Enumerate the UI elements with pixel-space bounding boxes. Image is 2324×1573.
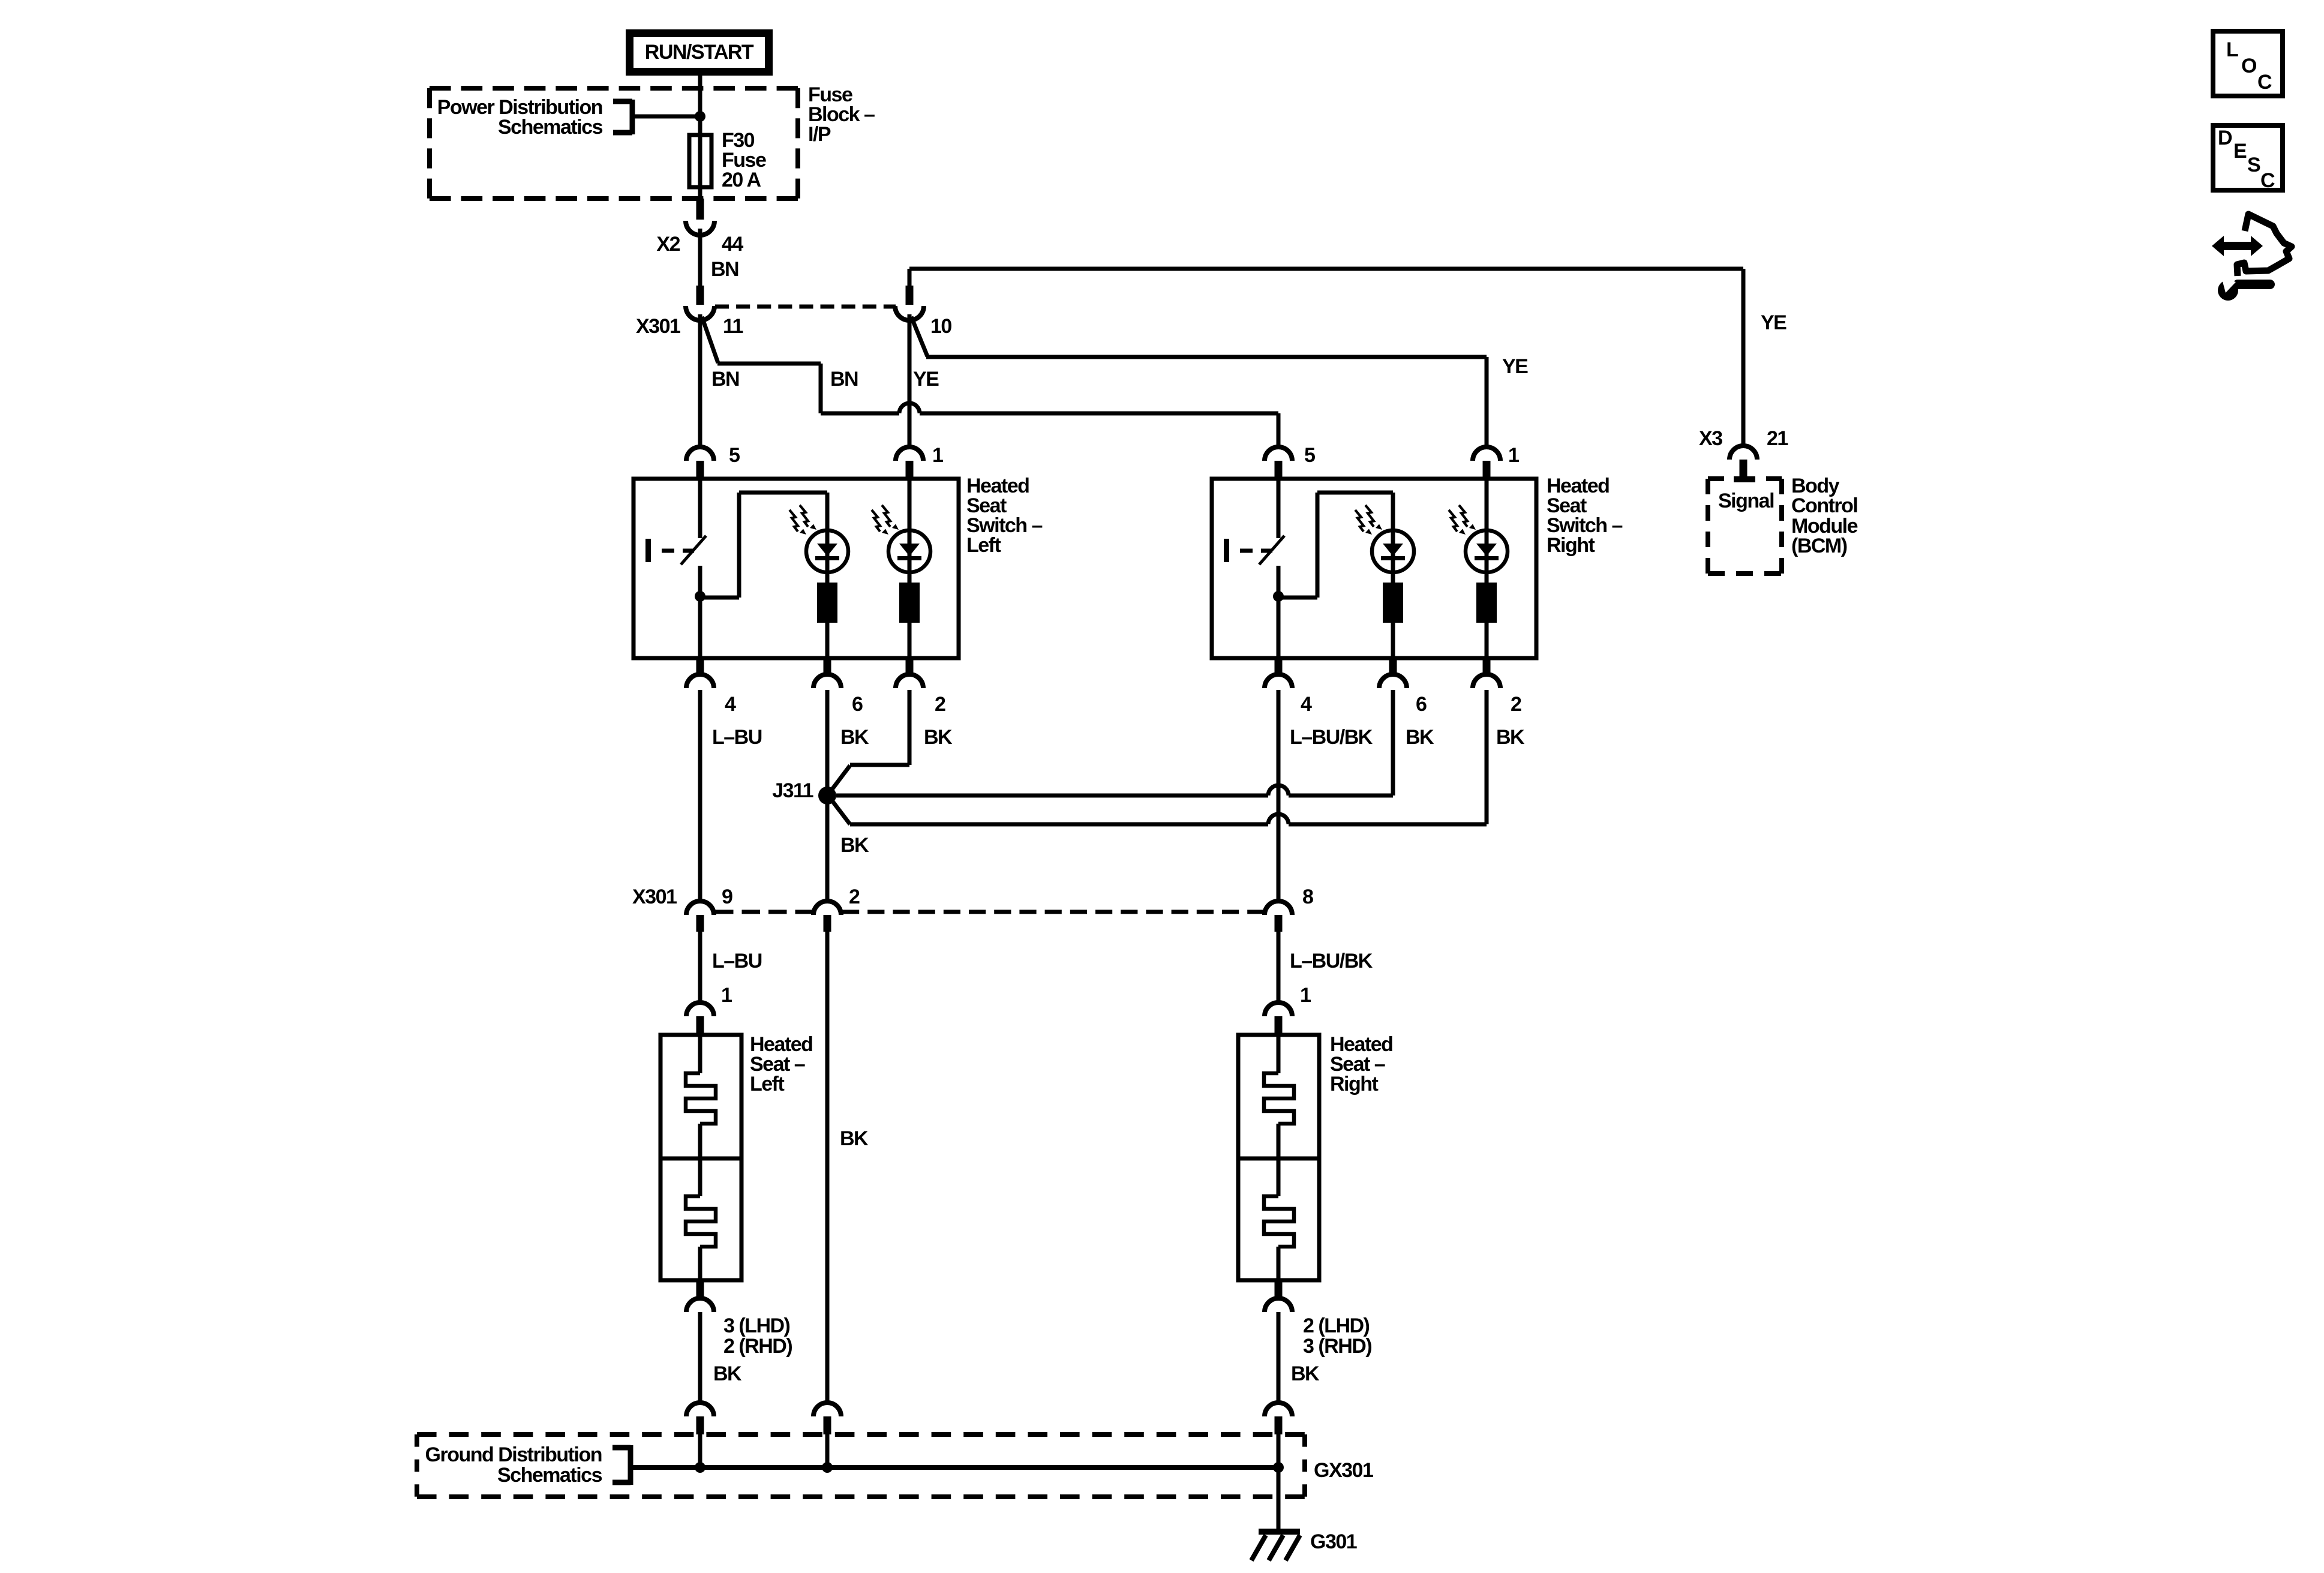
- connector right heated seat ground pin: [1265, 1280, 1292, 1312]
- label BN mid: [830, 368, 858, 391]
- svg-text:2: 2: [935, 693, 945, 716]
- svg-text:BK: BK: [840, 726, 869, 749]
- svg-text:X301: X301: [636, 315, 680, 338]
- label 9: [722, 885, 732, 908]
- svg-text:D: D: [2218, 127, 2232, 149]
- ignition voltage box RUN/START: [630, 34, 769, 72]
- svg-text:Signal: Signal: [1718, 490, 1774, 512]
- connector X301 pin 2: [813, 901, 841, 932]
- svg-text:BK: BK: [924, 726, 953, 749]
- wire color labels under right switch: [1290, 726, 1525, 749]
- dashed connector line X301 row2 right: [842, 910, 1265, 914]
- wire BK J311 to right pin6: [836, 690, 1393, 795]
- svg-text:X3: X3: [1699, 427, 1722, 450]
- connector left switch pin 2: [896, 658, 923, 688]
- svg-text:BK: BK: [840, 834, 869, 857]
- connector right switch pin 6: [1379, 658, 1407, 688]
- svg-text:L–BU/BK: L–BU/BK: [1290, 950, 1373, 972]
- svg-text:1: 1: [1300, 984, 1311, 1007]
- svg-text:I/P: I/P: [808, 123, 831, 146]
- wire into ground bus right: [1277, 1434, 1281, 1467]
- wire hop at right pin4 upper: [1268, 785, 1289, 795]
- svg-text:C: C: [2260, 169, 2275, 192]
- label J311: [772, 779, 813, 802]
- dashed connector line X301 row1: [715, 305, 896, 309]
- wire BK J311 to right pin2: [831, 690, 1487, 824]
- svg-text:BK: BK: [1291, 1362, 1320, 1385]
- ground symbol G301: [1251, 1529, 1300, 1560]
- connector left switch pin 4: [686, 658, 714, 688]
- connector left switch pin 6: [813, 658, 841, 688]
- svg-text:3 (LHD): 3 (LHD): [723, 1314, 790, 1337]
- svg-text:X301: X301: [632, 885, 677, 908]
- label Signal: [1718, 490, 1774, 512]
- label YE at BCM wire: [1761, 311, 1786, 334]
- label Heated Seat Switch - Right: [1547, 475, 1623, 557]
- heated seat switch left box with switch S1 LEDs and resistors: [633, 479, 959, 658]
- connector X301 pin 11: [686, 286, 714, 320]
- wire YE from X301-10 down to left switch pin 1: [908, 314, 912, 449]
- label BN: [711, 258, 738, 281]
- connector left heated seat ground pin: [686, 1280, 714, 1312]
- svg-text:(BCM): (BCM): [1791, 535, 1847, 557]
- svg-text:S: S: [2247, 154, 2260, 176]
- svg-text:Left: Left: [966, 534, 1001, 557]
- wire BK left pin6 to J311: [825, 690, 830, 795]
- svg-text:RUN/START: RUN/START: [645, 41, 754, 64]
- connector X301 pin 9: [686, 901, 714, 932]
- wire hop where BN crosses YE: [899, 403, 920, 413]
- svg-text:L–BU/BK: L–BU/BK: [1290, 726, 1373, 749]
- connector X301 pin 8: [1265, 901, 1292, 932]
- label 1 left heater: [721, 984, 732, 1007]
- label 2 row2: [849, 885, 860, 908]
- svg-text:Ground Distribution: Ground Distribution: [425, 1443, 602, 1466]
- svg-text:44: 44: [722, 233, 743, 256]
- svg-text:YE: YE: [913, 368, 939, 391]
- label YE mid: [1502, 355, 1528, 378]
- svg-text:BK: BK: [713, 1362, 742, 1385]
- label 21: [1767, 427, 1788, 450]
- wire from RUN/START to fuse block junction: [698, 76, 702, 135]
- left heated seat element box: [660, 1035, 741, 1282]
- wire into ground bus left: [698, 1434, 702, 1467]
- wire GX301 to G301: [1277, 1467, 1281, 1530]
- svg-text:Left: Left: [750, 1073, 785, 1095]
- svg-text:Right: Right: [1330, 1073, 1379, 1095]
- label GX301: [1314, 1459, 1373, 1482]
- wire BK left pin2 to J311: [830, 690, 909, 792]
- wire L-BU to left heated seat: [698, 932, 702, 1004]
- connector left heated seat pin 1: [686, 1002, 714, 1035]
- connector right switch pin 1: [1473, 447, 1500, 479]
- svg-text:21: 21: [1767, 427, 1788, 450]
- svg-text:2: 2: [849, 885, 860, 908]
- heated seat switch right box with switch S2 LEDs and resistors: [1212, 479, 1536, 658]
- wire YE from X301-10 up and right to BCM: [909, 269, 1743, 447]
- wire L-BU/BK right pin4 to X301-8: [1277, 690, 1281, 902]
- label X301 row2: [632, 885, 677, 908]
- svg-text:11: 11: [723, 315, 743, 338]
- fuse block I/P dashed box: [430, 88, 798, 199]
- label YE on left pin1 wire: [913, 368, 939, 391]
- label X2: [656, 233, 680, 256]
- svg-text:3 (RHD): 3 (RHD): [1303, 1335, 1371, 1358]
- wire BK left heater to ground connector: [698, 1312, 702, 1404]
- connector right heated seat pin 1: [1265, 1002, 1292, 1035]
- connector right switch pin 4: [1265, 658, 1292, 688]
- svg-text:BK: BK: [840, 1127, 869, 1150]
- svg-text:YE: YE: [1502, 355, 1528, 378]
- wire into ground bus mid: [825, 1434, 830, 1467]
- dashed connector line X301 row2 left: [715, 910, 813, 914]
- svg-text:BK: BK: [1496, 726, 1525, 749]
- connector mid ground lead: [813, 1403, 841, 1434]
- wire BK J311 down to X301-2: [825, 795, 830, 902]
- icon double arrow: [2212, 236, 2263, 256]
- right heated seat element box: [1238, 1035, 1319, 1282]
- label BK right ground wire: [1291, 1362, 1320, 1385]
- svg-text:1: 1: [1508, 444, 1519, 467]
- pin labels under left switch: [725, 693, 945, 716]
- label Ground Distribution Schematics: [425, 1443, 602, 1487]
- svg-text:GX301: GX301: [1314, 1459, 1373, 1482]
- junction dot ground left: [695, 1462, 705, 1473]
- ground bus wire GX301: [630, 1465, 1278, 1470]
- label Heated Seat - Right: [1330, 1033, 1392, 1095]
- label Fuse Block - I/P: [808, 83, 875, 146]
- svg-text:2 (LHD): 2 (LHD): [1303, 1314, 1370, 1337]
- wire from Power Distribution bracket to node: [632, 115, 700, 119]
- svg-text:10: 10: [930, 315, 951, 338]
- label 2 LHD 3 RHD: [1303, 1314, 1371, 1358]
- label BN left: [711, 368, 739, 391]
- label 11: [723, 315, 743, 338]
- svg-text:1: 1: [932, 444, 943, 467]
- label L-BU/BK: [1290, 950, 1373, 972]
- connector right switch pin 2: [1473, 658, 1500, 688]
- svg-text:2 (RHD): 2 (RHD): [723, 1335, 792, 1358]
- label 44: [722, 233, 743, 256]
- svg-text:BN: BN: [711, 368, 739, 391]
- junction node at fuse top: [695, 111, 705, 122]
- svg-text:O: O: [2241, 55, 2257, 77]
- label G301: [1310, 1530, 1357, 1553]
- wire BN branch from X301-11 to right switch pin 5: [702, 317, 1278, 449]
- icon arrow outline: [2237, 214, 2292, 276]
- svg-text:9: 9: [722, 885, 732, 908]
- connector right ground lead: [1265, 1403, 1292, 1434]
- svg-text:G301: G301: [1310, 1530, 1357, 1553]
- svg-text:L–BU: L–BU: [712, 726, 762, 749]
- junction dot ground right GX301: [1273, 1462, 1284, 1473]
- connector left switch pin 5: [686, 447, 714, 479]
- svg-text:BK: BK: [1406, 726, 1434, 749]
- label X3: [1699, 427, 1722, 450]
- svg-text:5: 5: [1304, 444, 1315, 467]
- label 1 left: [932, 444, 943, 467]
- wire color labels under left switch: [712, 726, 953, 749]
- wire L-BU/BK to right heated seat: [1277, 932, 1281, 1004]
- svg-text:20 A: 20 A: [722, 169, 761, 191]
- label F30 Fuse 20 A: [722, 129, 766, 191]
- svg-text:BN: BN: [711, 258, 738, 281]
- label 1 right heater: [1300, 984, 1311, 1007]
- wire BN from X301-11 down to left switch pin 5: [698, 314, 702, 449]
- junction dot ground mid: [822, 1462, 833, 1473]
- connector right switch pin 5: [1265, 447, 1292, 479]
- label 5 left: [729, 444, 740, 467]
- svg-text:YE: YE: [1761, 311, 1786, 334]
- bracket for Ground Distribution Schematics: [612, 1445, 630, 1485]
- label 5 right: [1304, 444, 1315, 467]
- svg-text:6: 6: [852, 693, 863, 716]
- svg-text:Control: Control: [1791, 494, 1857, 517]
- label Body Control Module BCM: [1791, 475, 1858, 557]
- label 1 right: [1508, 444, 1519, 467]
- connector left switch pin 1: [896, 447, 923, 479]
- label 8: [1302, 885, 1313, 908]
- svg-text:8: 8: [1302, 885, 1313, 908]
- connector left ground lead: [686, 1403, 714, 1434]
- svg-text:4: 4: [725, 693, 736, 716]
- svg-text:X2: X2: [656, 233, 680, 256]
- label Heated Seat Switch - Left: [966, 475, 1043, 557]
- svg-text:BN: BN: [830, 368, 858, 391]
- pin labels under right switch: [1301, 693, 1521, 716]
- connector X2 pin 44: [686, 199, 714, 235]
- svg-text:Right: Right: [1547, 534, 1595, 557]
- wire BN from X2-44 to X301-11: [698, 229, 702, 287]
- wire hop at right pin4 lower: [1268, 814, 1289, 824]
- connector BCM X3 pin 21: [1730, 446, 1757, 479]
- label 3 LHD 2 RHD: [723, 1314, 792, 1358]
- label 10: [930, 315, 951, 338]
- wire BK right heater to ground connector: [1277, 1312, 1281, 1404]
- svg-text:C: C: [2257, 71, 2272, 94]
- BCM dashed box: [1708, 476, 1782, 574]
- label X301: [636, 315, 680, 338]
- svg-text:4: 4: [1301, 693, 1312, 716]
- svg-text:Schematics: Schematics: [497, 1464, 602, 1487]
- ground distribution dashed box: [417, 1434, 1305, 1497]
- wire BK long from X301-2 to ground: [825, 932, 830, 1404]
- svg-text:L: L: [2226, 38, 2238, 61]
- junction J311: [818, 786, 836, 804]
- wire YE branch from X301-10 to right switch pin 1: [911, 317, 1487, 449]
- svg-text:6: 6: [1416, 693, 1427, 716]
- label BK long wire: [840, 1127, 869, 1150]
- fuse F30 20 A: [689, 116, 711, 199]
- icon box DESC: [2213, 125, 2283, 192]
- connector X301 pin 10: [895, 286, 924, 320]
- bracket for Power Distribution Schematics: [613, 100, 632, 134]
- svg-text:Schematics: Schematics: [498, 116, 603, 139]
- svg-text:5: 5: [729, 444, 740, 467]
- label BK below J311: [840, 834, 869, 857]
- wire L-BU left pin4 to X301-9: [698, 690, 702, 902]
- svg-text:E: E: [2233, 140, 2247, 163]
- icon wrench: [2218, 277, 2275, 301]
- label Power Distribution Schematics: [437, 96, 603, 139]
- svg-text:J311: J311: [772, 779, 813, 802]
- icon box LOC: [2213, 31, 2283, 96]
- svg-text:1: 1: [721, 984, 732, 1007]
- label L-BU: [712, 950, 762, 972]
- svg-text:L–BU: L–BU: [712, 950, 762, 972]
- label Heated Seat - Left: [750, 1033, 812, 1095]
- label BK left ground wire: [713, 1362, 742, 1385]
- svg-text:2: 2: [1511, 693, 1521, 716]
